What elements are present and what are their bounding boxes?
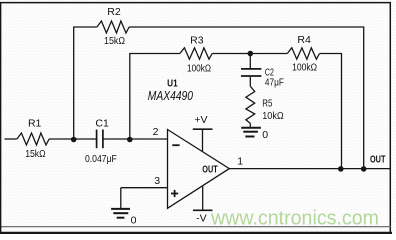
svg-text:OUT: OUT — [202, 165, 217, 176]
svg-text:C1: C1 — [95, 118, 109, 130]
svg-text:MAX4490: MAX4490 — [148, 89, 193, 103]
svg-text:15kΩ: 15kΩ — [25, 148, 46, 160]
svg-text:R2: R2 — [107, 6, 121, 18]
svg-text:10kΩ: 10kΩ — [262, 110, 284, 122]
svg-text:15kΩ: 15kΩ — [104, 35, 125, 47]
svg-text:R1: R1 — [28, 118, 42, 130]
svg-text:3: 3 — [154, 175, 160, 187]
svg-text:47μF: 47μF — [265, 77, 284, 89]
svg-text:0: 0 — [131, 215, 137, 227]
svg-text:100kΩ: 100kΩ — [292, 61, 317, 73]
svg-text:+V: +V — [194, 114, 207, 126]
svg-text:U1: U1 — [167, 78, 178, 90]
svg-text:R3: R3 — [190, 35, 204, 47]
svg-text:0: 0 — [262, 129, 268, 141]
svg-text:www.cntronics.com: www.cntronics.com — [210, 208, 379, 230]
svg-text:R5: R5 — [262, 98, 272, 110]
svg-text:R4: R4 — [297, 34, 311, 46]
svg-text:100kΩ: 100kΩ — [187, 62, 211, 74]
svg-text:1: 1 — [237, 156, 243, 168]
svg-text:2: 2 — [153, 126, 159, 138]
svg-text:0.047μF: 0.047μF — [85, 153, 117, 165]
svg-text:OUT: OUT — [370, 155, 385, 166]
svg-text:-V: -V — [196, 213, 207, 225]
